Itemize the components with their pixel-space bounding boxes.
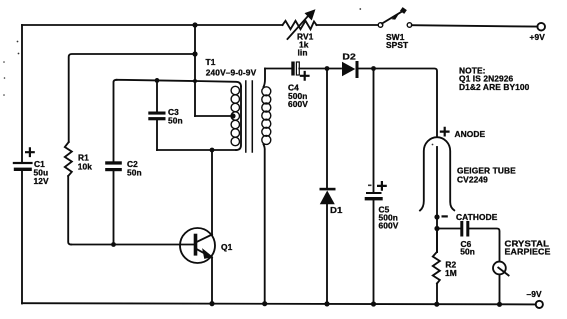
node junction emitter / bottom rail [209, 301, 214, 306]
transformer T1 core [246, 81, 253, 152]
node junction secondary / bottom rail [262, 301, 267, 306]
node junction C5 branch [371, 66, 376, 71]
capacitor C3 [148, 80, 182, 150]
wire T1 primary feed vertical [194, 25, 196, 116]
node cathode [434, 212, 497, 222]
scan noise specks [3, 8, 433, 186]
node junction C3 top [155, 78, 160, 83]
wire left supply rail lower [21, 171, 23, 304]
wire top rail RV1 to SW1 [317, 24, 379, 26]
svg-text:lin: lin [298, 48, 308, 58]
svg-text:600V: 600V [288, 99, 308, 109]
resistor R2 [433, 229, 457, 304]
terminal -9V [527, 289, 543, 308]
diode D1 [320, 188, 343, 304]
svg-text:EARPIECE: EARPIECE [505, 247, 551, 257]
switch SW1 [378, 7, 412, 50]
node junction top rail / T1 feed [192, 22, 197, 27]
svg-text:–9V: –9V [527, 289, 543, 299]
wire secondary to C4 [265, 68, 291, 70]
svg-text:50n: 50n [127, 168, 142, 178]
capacitor C1 [13, 148, 49, 186]
svg-text:ANODE: ANODE [455, 129, 486, 139]
svg-text:CATHODE: CATHODE [456, 212, 498, 222]
svg-text:10k: 10k [78, 162, 93, 172]
node junction C5 / bottom rail [371, 301, 376, 306]
svg-text:CV2249: CV2249 [457, 175, 488, 185]
capacitor C2 [105, 80, 142, 245]
svg-text:D2: D2 [342, 51, 356, 61]
svg-text:1M: 1M [445, 268, 457, 278]
note text [459, 66, 530, 93]
wire anode vertical through tube [436, 147, 438, 252]
node junction earpiece / bottom rail [497, 302, 502, 307]
wire D1 branch vertical [326, 69, 328, 189]
svg-text:240V–9-0-9V: 240V–9-0-9V [206, 68, 257, 78]
wire T1 primary bottom lead / C3 bottom link [157, 149, 236, 151]
svg-text:50n: 50n [168, 116, 183, 126]
node junction D1 / bottom rail [324, 301, 329, 306]
capacitor C6 [437, 221, 500, 262]
wire top +9V rail left segment [22, 24, 283, 26]
transistor Q1 [180, 228, 233, 263]
wire bottom -9V rail [22, 303, 536, 304]
wire C2/C3 top link [117, 80, 196, 81]
node junction R1 feed / T1 vertical [192, 51, 197, 56]
wire left supply rail upper [21, 25, 23, 162]
capacitor C4 [288, 62, 309, 110]
terminal +9V [530, 23, 546, 42]
node T1 center tap dot [230, 113, 235, 118]
svg-text:D1: D1 [330, 205, 343, 215]
wire C4 to D2 [299, 68, 341, 70]
label T1 [206, 57, 257, 78]
earpiece crystal earpiece [493, 239, 551, 304]
wire T1 center tap [195, 115, 231, 117]
wire R1 top feed [69, 54, 195, 142]
svg-text:SPST: SPST [386, 40, 409, 50]
svg-text:50n: 50n [460, 246, 475, 256]
node junction R2 / bottom rail [434, 302, 439, 307]
wire C5 branch vertical [373, 69, 375, 193]
geiger tube V1 CV2249 envelope [420, 128, 516, 211]
node junction D1 branch [325, 66, 330, 71]
svg-text:Q1: Q1 [221, 242, 233, 252]
resistor R1 [65, 142, 92, 245]
svg-text:+9V: +9V [530, 32, 546, 42]
wire Q1 base [71, 244, 195, 246]
wire T1 secondary top lead [264, 69, 266, 87]
svg-text:600V: 600V [379, 221, 399, 231]
svg-text:D1&2 ARE BY100: D1&2 ARE BY100 [459, 82, 530, 92]
wire D2 to anode corner [358, 69, 437, 137]
wire Q1 collector [211, 150, 213, 235]
wire T1 secondary bottom lead [264, 144, 265, 303]
transformer T1 secondary winding loops [262, 87, 271, 145]
node junction primary top lead [193, 79, 197, 83]
node junction C6 / R2 [434, 226, 439, 231]
wire top rail SW1 to +9V terminal [412, 25, 538, 26]
diode D2 [342, 51, 359, 78]
potentiometer RV1 [283, 10, 317, 57]
svg-text:12V: 12V [34, 176, 50, 186]
transformer T1 primary bobbin edge [236, 87, 241, 151]
node junction Q1 base / C2 [111, 242, 116, 247]
wire T1 primary top lead [195, 81, 241, 87]
wire Q1 emitter [211, 258, 213, 304]
transformer T1 primary winding loops [231, 86, 239, 145]
capacitor C5 [365, 182, 399, 303]
node junction Q1 collector / primary bottom [210, 148, 215, 153]
svg-text:T1: T1 [206, 57, 216, 67]
